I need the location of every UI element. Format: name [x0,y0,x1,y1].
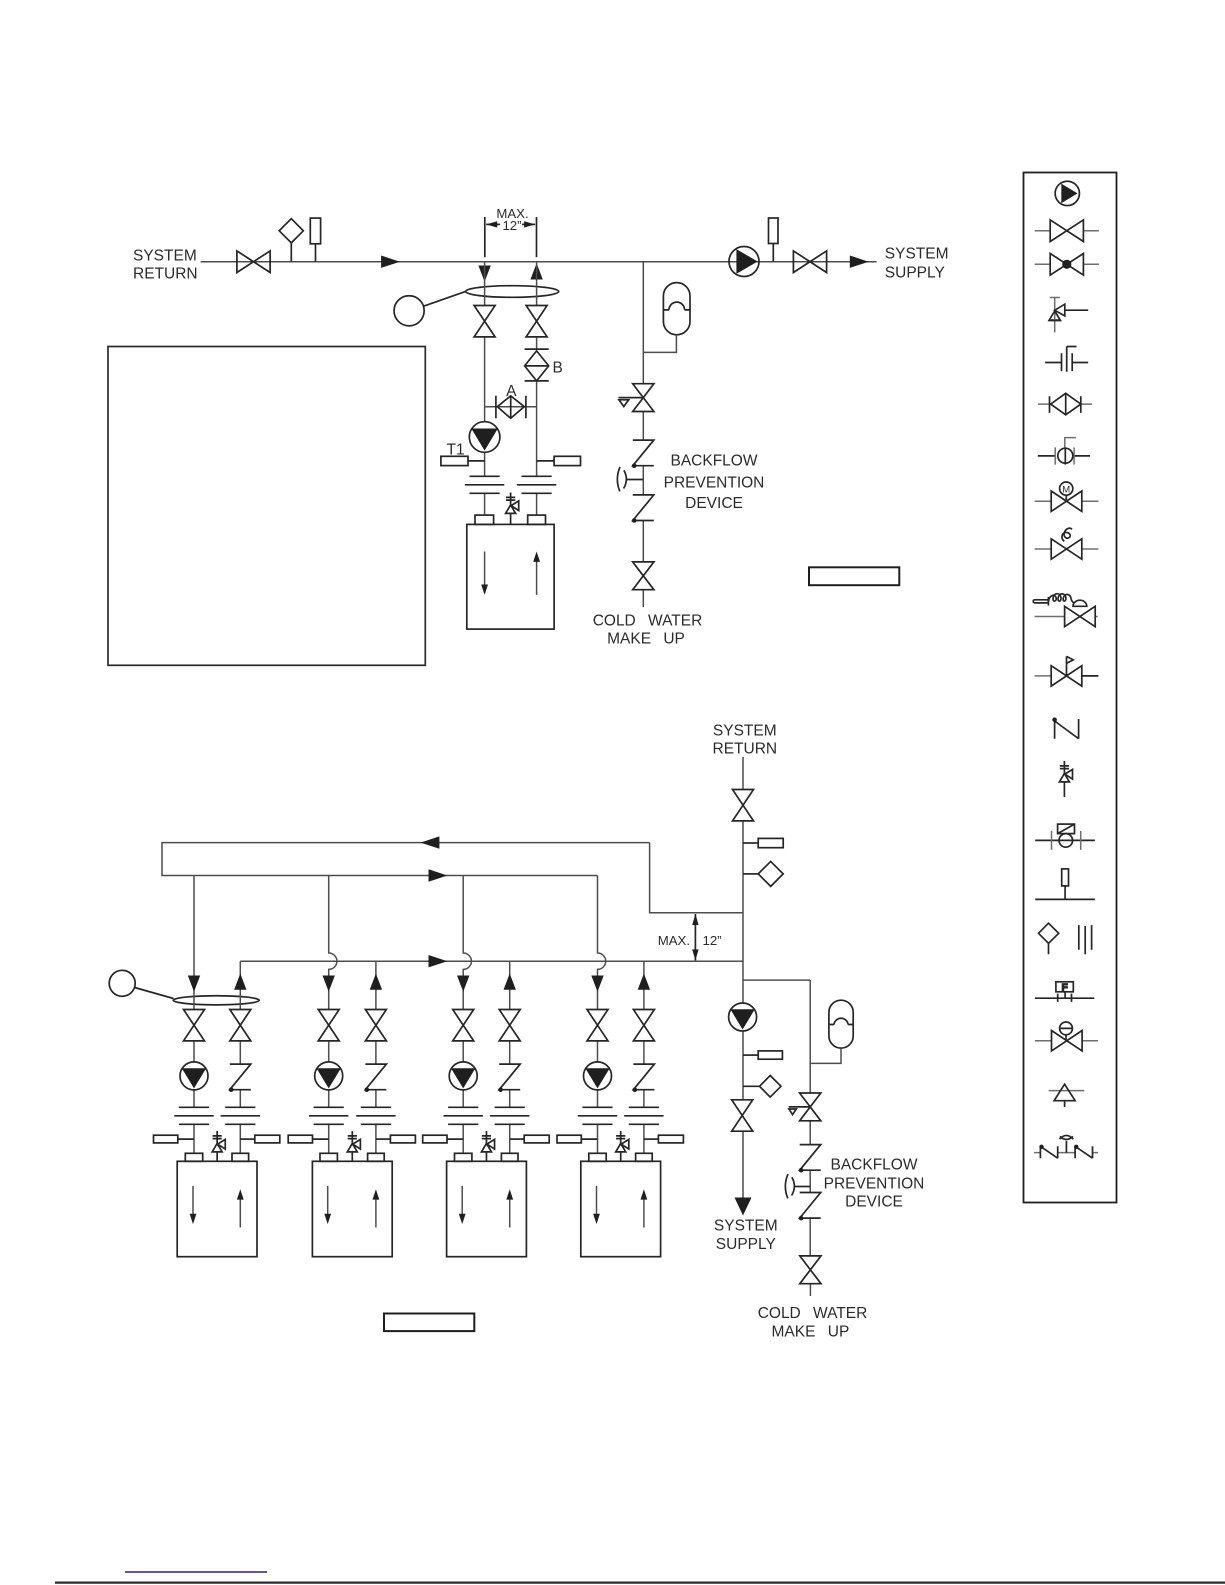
relief valve boiler 3 [481,1131,494,1161]
pipe: boiler 2 supply riser [375,961,377,1153]
backflow test port [617,467,643,491]
expansion tank [663,283,690,335]
flow arrow down into boiler riser [478,266,490,282]
svg-text:COLD WATER: COLD WATER [758,1305,868,1322]
backflow test port (bottom) [785,1174,810,1198]
thermometer well boiler 2 return [288,1135,329,1143]
backflow check valve 1 (bottom) [799,1145,821,1173]
pipe: boiler 2 return riser with crossover hop [329,876,337,1154]
pipe: boiler supply riser (right) [536,262,538,515]
thermometer well boiler 1 supply [240,1135,279,1143]
legend relief valve [1035,656,1099,686]
svg-text:SYSTEM: SYSTEM [713,722,777,739]
boiler 1 connection stub left [185,1153,202,1161]
check valve boiler 4 supply riser [633,1064,655,1092]
pipe: boiler 3 return riser with crossover hop [463,876,471,1154]
backflow check valve 2 [632,495,654,523]
relief valve boiler 4 [616,1131,629,1161]
callout leader (bottom) [135,988,174,999]
thermometer well on return main [310,218,320,262]
legend union [1045,347,1088,372]
boiler 4 vessel [581,1161,661,1256]
flow arrow on return header [421,836,440,848]
gate valve on cold water make-up [633,562,654,590]
relief valve on boiler [506,493,519,525]
legend double check valve assembly [1034,1135,1098,1158]
boiler 4 internal arrow up [641,1189,648,1227]
union boiler 2 return riser [309,1107,348,1124]
thermometer well boiler 4 supply [644,1135,684,1143]
notes box [108,347,425,666]
pump boiler 2 [315,1062,343,1090]
gauge diamond on return drop [743,861,783,886]
callout balloon (bottom) [109,970,135,996]
pipe: return header drop to system return [650,843,743,913]
pipe: cold water make-up drop [642,262,644,607]
flow arrow to system supply [850,256,869,268]
boiler 4 internal arrow down [593,1186,600,1224]
boiler 2 vessel [312,1161,392,1256]
gate valve on supply riser [526,306,547,337]
boiler 2 internal arrow up [373,1189,380,1227]
thermometer well boiler 2 supply [376,1135,416,1143]
gate valve boiler 4 return riser [587,1009,608,1040]
gate valve boiler 2 supply riser [365,1009,386,1040]
svg-text:12”: 12” [703,933,722,948]
pipe: boiler 1 supply riser [239,961,241,1153]
expansion tank (bottom) [829,1000,853,1048]
pipe: boiler 4 supply riser [643,961,645,1153]
flow arrow up boiler 1 supply riser [234,974,246,990]
svg-text:SUPPLY: SUPPLY [885,265,945,282]
flow arrow on supply header [429,955,448,967]
footer page rule [55,1581,1225,1583]
gate valve boiler 1 supply riser [230,1009,251,1040]
check valve boiler 3 supply riser [498,1064,520,1092]
pump on secondary loop [729,1003,757,1031]
thermometer well on return drop [743,838,783,847]
gauge diamond on return main [279,219,303,262]
svg-text:MAX.: MAX. [658,933,690,948]
gate valve boiler 1 return riser [184,1009,205,1040]
boiler 3 connection stub left [455,1153,472,1161]
legend relief valve side outlet [1049,297,1088,333]
thermometer well boiler 3 supply [510,1135,550,1143]
pipe: expansion tank connection (bottom) [810,1048,841,1063]
union boiler 4 supply riser [624,1107,663,1124]
legend swing check vertical [1052,718,1078,739]
gauge diamond on supply drop [743,1076,781,1098]
connection ellipse boiler 1 [173,996,259,1005]
thermometer well on supply main [769,218,779,262]
svg-text:PREVENTION: PREVENTION [664,475,765,492]
gate valve boiler 3 supply riser [499,1009,520,1040]
boiler 2 connection stub left [320,1153,337,1161]
pressure reducing fill valve (bottom) [789,1093,821,1121]
flow arrow up boiler 2 supply riser [370,974,382,990]
gate valve on return riser [474,306,495,337]
svg-text:DEVICE: DEVICE [685,495,743,512]
svg-text:RETURN: RETURN [133,266,198,283]
flow arrow up boiler 4 supply riser [638,974,650,990]
svg-text:A: A [506,383,517,400]
union boiler 2 supply riser [356,1107,395,1124]
svg-text:SYSTEM: SYSTEM [133,247,197,264]
backflow check valve 1 [632,440,654,468]
boiler 3 internal arrow up [506,1189,513,1227]
legend air vent [1049,1084,1085,1107]
svg-text:RETURN: RETURN [713,741,778,758]
thermometer well boiler 4 return [557,1135,598,1143]
legend motorized valve [1035,482,1099,511]
svg-text:BACKFLOW: BACKFLOW [831,1157,918,1174]
callout balloon [394,296,424,326]
boiler connection stub left [475,515,494,524]
thermometer well boiler 3 return [423,1135,464,1143]
thermometer well right of supply riser [537,456,581,465]
legend pressure gauge with cock [1035,824,1095,850]
relief valve boiler 1 [212,1131,225,1161]
boiler 3 connection stub right [501,1153,518,1161]
relief valve boiler 2 [347,1131,360,1161]
pipe: cold water branch [743,980,810,1296]
boiler connection stub right [528,515,546,524]
legend globe valve [1035,253,1099,275]
boiler 1 connection stub right [232,1153,249,1161]
svg-text:MAKE UP: MAKE UP [607,631,685,648]
union boiler 1 supply riser [221,1107,260,1124]
pipe: boiler return riser (left) [484,262,486,515]
union on return riser [465,476,504,493]
pipe: boiler 3 supply riser [509,961,511,1153]
svg-text:SYSTEM: SYSTEM [714,1218,778,1235]
gate valve boiler 2 return riser [318,1009,339,1040]
union on supply riser [517,476,556,493]
boiler 1 internal arrow up [237,1189,244,1227]
boiler 2 connection stub right [368,1153,385,1161]
legend balancing valve [1038,438,1090,465]
legend flow switch [1035,982,1094,1002]
svg-text:PREVENTION: PREVENTION [824,1176,925,1193]
pump on system supply [729,247,759,277]
pump boiler 1 [180,1062,208,1090]
boiler 4 connection stub right [636,1153,653,1161]
flow arrow to system supply (down) [735,1198,752,1216]
svg-text:SUPPLY: SUPPLY [716,1236,776,1253]
flow arrow down boiler 4 return riser [591,976,603,992]
svg-text:COLD WATER: COLD WATER [593,613,703,630]
flow arrow down boiler 1 return riser [188,976,200,992]
pump boiler 3 [449,1062,477,1090]
svg-text:M: M [1062,485,1070,496]
pump boiler 4 [584,1062,612,1090]
pipe: system return drop [742,757,744,1198]
legend pressure reducing valve [1035,1022,1098,1051]
flow arrow up boiler 3 supply riser [504,974,516,990]
check valve boiler 1 supply riser [229,1064,251,1092]
gate valve on system return drop [733,790,754,821]
gate valve on system supply drop [732,1100,753,1131]
footer blue rule [125,1571,267,1573]
pipe: expansion tank connection [643,335,676,353]
boiler 1 internal arrow down [190,1186,197,1224]
pipe: boiler 4 return riser with crossover hop [598,876,606,1154]
pressure reducing fill valve [619,384,654,412]
svg-text:SYSTEM: SYSTEM [885,246,949,263]
flow arrow on lower header [429,869,448,881]
legend thermometer [1035,869,1095,900]
gate valve on system supply [793,251,826,273]
legend boiler relief valve [1059,761,1072,797]
union boiler 1 return riser [174,1107,213,1124]
union boiler 4 return riser [578,1107,617,1124]
svg-text:BACKFLOW: BACKFLOW [671,453,758,470]
gate valve boiler 4 supply riser [633,1009,654,1040]
dimension extension lines MAX 12 [484,217,486,257]
check valve B on supply riser [525,349,549,381]
flow arrow up from boiler riser [530,263,542,279]
flow arrow down boiler 3 return riser [457,976,469,992]
callout leader line [424,291,466,306]
boiler 1 vessel [177,1161,257,1256]
check valve boiler 2 supply riser [365,1064,387,1092]
figure label box [809,567,899,585]
legend box [1024,173,1117,1203]
svg-text:DEVICE: DEVICE [845,1193,903,1210]
gate valve on cold water make-up (bottom) [800,1256,821,1284]
dimension line MAX 12 [694,914,696,960]
flow arrow down boiler 2 return riser [323,976,335,992]
svg-text:12”: 12” [502,218,521,233]
pipe: primary return header [162,843,650,876]
legend drain valve with hose connection [1033,594,1098,627]
svg-text:MAKE UP: MAKE UP [772,1323,850,1340]
gate valve on system return [237,251,270,273]
thermometer well on supply drop [743,1051,782,1059]
flow arrow on return main [381,256,400,268]
boiler vessel [467,524,554,629]
pipe: main return-supply header [201,261,877,263]
boiler 4 connection stub left [589,1153,606,1161]
union boiler 3 supply riser [490,1107,529,1124]
backflow check valve 2 (bottom) [799,1193,821,1221]
legend solenoid valve [1035,528,1099,559]
dimension arrows [486,223,500,225]
union boiler 3 return riser [444,1107,483,1124]
gate valve boiler 3 return riser [453,1009,474,1040]
boiler internal flow arrow down [481,552,488,595]
boiler 3 vessel [447,1161,527,1256]
boiler internal flow arrow up [533,552,540,595]
pump T1 circulator [469,422,500,453]
boiler 2 internal arrow down [324,1186,331,1224]
thermometer well boiler 1 return [154,1135,195,1143]
connection ellipse around risers [466,286,559,298]
figure label box (bottom) [384,1314,474,1332]
pipe: balance crossover A [485,406,537,408]
legend pump symbol [1055,181,1079,205]
boiler 3 internal arrow down [459,1186,466,1224]
legend check valve [1038,393,1092,415]
thermometer well left of return riser [441,456,485,465]
legend test plug and air vent [1039,923,1092,954]
legend gate valve [1035,220,1099,242]
svg-text:B: B [553,360,563,377]
valve A on crossover [496,396,526,419]
pipe: boiler 1 return riser [193,876,195,1154]
pipe: secondary supply header [240,960,743,962]
